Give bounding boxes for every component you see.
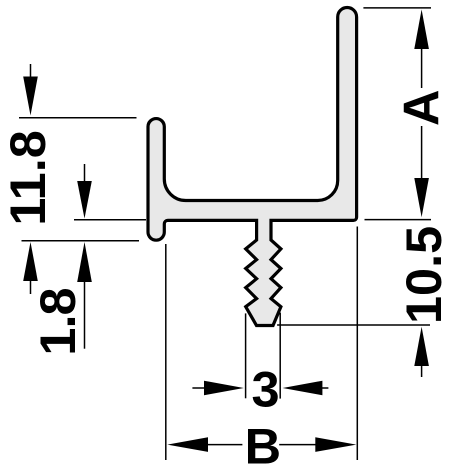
ext line bottom of left arm <box>22 240 140 242</box>
arrow 1.8 bottom (up) <box>77 242 92 282</box>
svg-text:1.8: 1.8 <box>29 288 86 355</box>
arrow B right (right-pointing) <box>315 437 356 452</box>
3 ext line right <box>279 313 281 399</box>
10.5 bottom tail <box>421 365 423 377</box>
arrow 1.8 top (down) <box>77 181 92 219</box>
svg-text:A: A <box>393 90 450 126</box>
arrow A bottom (down) <box>414 178 429 217</box>
3 dim right tail <box>321 387 328 389</box>
ext line top of left arm <box>19 117 137 119</box>
svg-text:3: 3 <box>251 361 279 418</box>
arrow A top (up) <box>414 10 429 50</box>
svg-text:B: B <box>245 418 281 471</box>
arrow 10.5 bottom (up) <box>414 327 429 366</box>
A dim line bottom <box>421 126 423 180</box>
arrow 3 left (right-pointing) <box>204 381 244 396</box>
profile outline <box>148 8 357 326</box>
arrow 3 right (left-pointing) <box>283 381 323 396</box>
ext line base bottom (left) <box>74 219 146 221</box>
B dim line left <box>207 444 242 446</box>
1.8 top tail <box>84 164 86 182</box>
ext line top of right arm <box>363 7 431 9</box>
A dim line top <box>421 48 423 88</box>
B ext line left <box>165 244 167 460</box>
svg-text:10.5: 10.5 <box>395 226 452 324</box>
arrow 11.8 bottom (up) <box>23 242 38 281</box>
arrow B left (left-pointing) <box>167 437 208 452</box>
1.8 bottom tail <box>84 281 86 349</box>
3 dim left tail <box>192 387 205 389</box>
11.8 top tail <box>30 64 32 78</box>
ext line base bottom (right) <box>365 219 432 221</box>
3 ext line left <box>245 313 247 398</box>
svg-text:11.8: 11.8 <box>0 130 56 226</box>
arrow 11.8 top (down) <box>23 77 38 116</box>
B ext line right <box>356 227 358 461</box>
ext line spigot tip <box>277 324 430 326</box>
B dim line right <box>279 444 316 446</box>
11.8 bottom tail <box>30 280 32 294</box>
